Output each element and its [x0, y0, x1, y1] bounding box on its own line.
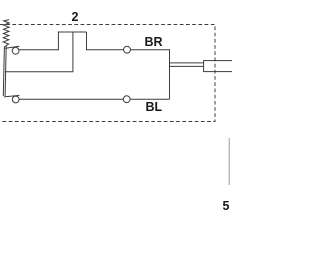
terminal circle BR [124, 46, 131, 53]
contact circle on lever (top) [12, 47, 19, 54]
label BR (wire code) [145, 36, 163, 49]
contact arm (bottom blade) [4, 95, 20, 97]
spring (return spring on switch lever) [3, 20, 9, 47]
label BL (wire code) [146, 101, 163, 114]
switch lever bar (double line) [3, 46, 4, 96]
dashed enclosure box (component 2 outline) [0, 25, 215, 122]
terminal circle BL [123, 96, 130, 103]
wire: common feed from lever bar up to bridge [5, 32, 73, 72]
wire: double-line lead to connector [170, 62, 204, 64]
label 2 (component number) [72, 11, 79, 24]
contact circle on lever (bottom) [12, 96, 19, 103]
wire: top contact to bridge [19, 32, 87, 50]
connector plug rectangle [204, 61, 234, 72]
label 5 (adjacent component number) [223, 200, 230, 213]
wire: bottom contact to corner (BL) [19, 98, 170, 100]
contact arm (top blade) [5, 46, 20, 48]
edge line of adjacent component (right margin) [228, 138, 230, 185]
wire: bridge down and right to corner, then down (BR feed) [87, 32, 170, 99]
